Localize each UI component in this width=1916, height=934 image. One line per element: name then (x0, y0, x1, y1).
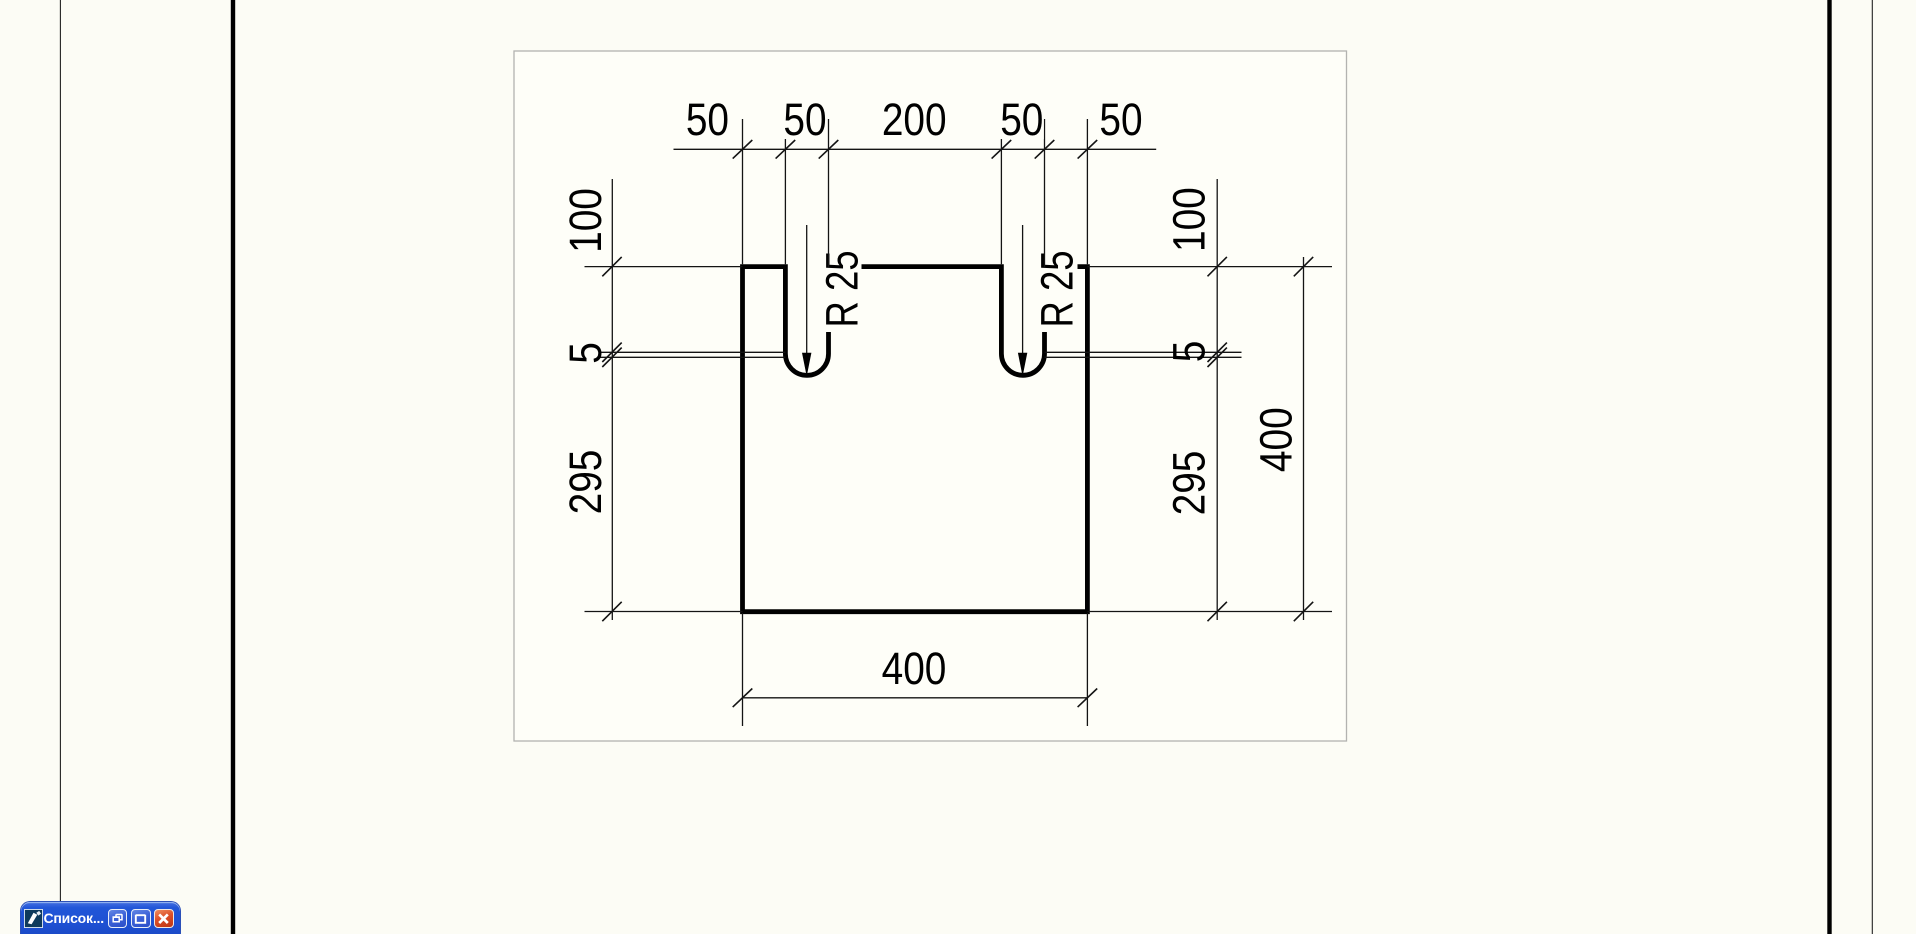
tick 3 (819, 140, 839, 159)
tick 4 (992, 140, 1012, 159)
wire: extension bottom edge right (1087, 611, 1332, 613)
tick right1 bottom (1208, 602, 1227, 621)
svg-text:400: 400 (882, 643, 947, 693)
wire: extension 5-pair upper left (600, 351, 785, 353)
wire: left thick vertical screen line (231, 0, 235, 934)
wire: bottom extension right (1086, 613, 1088, 726)
right dimension column 2 (400) (1303, 257, 1305, 620)
tick left 5b (602, 348, 621, 367)
dim text 50 (second) mask (783, 100, 827, 139)
tick bottom left (733, 689, 753, 708)
svg-text:50: 50 (783, 94, 826, 144)
tick 1 (733, 140, 753, 159)
wire: extension 5-pair lower right (1045, 356, 1242, 358)
wire: extension 5-pair lower left (600, 356, 785, 358)
wire: top dimension line (674, 148, 1157, 150)
wire: bottom extension left (742, 613, 744, 726)
tick right1 5b (1208, 348, 1227, 367)
tick left 5a (602, 343, 621, 362)
top dimension chain (674, 119, 1157, 267)
bottom dimension 400 (743, 613, 1088, 726)
svg-text:50: 50 (1000, 94, 1043, 144)
tick 6 (1078, 140, 1098, 159)
tick left top (602, 257, 621, 276)
part outline with two slots (743, 267, 1088, 612)
arrowhead R25 left (802, 353, 811, 377)
svg-text:295: 295 (560, 450, 610, 515)
svg-text:100: 100 (560, 188, 610, 253)
restore button (108, 909, 128, 929)
svg-text:50: 50 (1099, 94, 1142, 144)
leader line R25 left (806, 225, 808, 374)
wire: right vertical dimension line 1 (1216, 179, 1218, 620)
wire: bottom dimension line (743, 697, 1088, 699)
window icon (24, 909, 43, 928)
svg-text:5: 5 (560, 342, 610, 364)
svg-text:400: 400 (1251, 407, 1301, 472)
wire: extension bottom edge left (585, 611, 743, 613)
label R 25 (right slot) white mask box (1033, 243, 1078, 332)
wire: extension line 1 (742, 119, 744, 264)
tick right1 top (1208, 257, 1227, 276)
dim text 50 (fourth) mask (1000, 100, 1044, 139)
close button (154, 909, 174, 929)
wire: extension line 2 (784, 119, 786, 264)
left dimension column (585, 179, 786, 620)
wire: extension 5-pair upper right (1045, 351, 1242, 353)
svg-text:200: 200 (882, 94, 947, 144)
wire: right thick vertical screen line (1827, 0, 1831, 934)
wire: left vertical dimension line (611, 179, 613, 620)
taskbar window titlebar (minimized XP window) (21, 902, 180, 934)
label R 25 (left slot) white mask box (816, 243, 862, 332)
wire: extension line 4 (1000, 119, 1002, 264)
wire: extension line 6 (1086, 119, 1088, 264)
svg-text:R 25: R 25 (1032, 250, 1082, 327)
wire: extension top edge left (585, 266, 743, 268)
tick 2 (776, 140, 796, 159)
svg-text:5: 5 (1164, 341, 1214, 363)
window title text (44, 910, 106, 926)
arrowhead R25 right (1018, 353, 1027, 377)
tick right1 5a (1208, 343, 1227, 362)
wire: extension line 3 (828, 119, 830, 267)
svg-text:R 25: R 25 (817, 250, 867, 327)
tick right2 top (1294, 257, 1313, 276)
wire: extension top edge right (1087, 266, 1332, 268)
tick left bottom (602, 602, 621, 621)
maximize button (131, 909, 151, 929)
right dimension column 1 (1045, 179, 1333, 620)
panel: white drawing sheet (514, 51, 1347, 741)
wire: right vertical dimension line 2 (1303, 257, 1305, 620)
svg-text:295: 295 (1164, 451, 1214, 516)
tick right2 bottom (1294, 602, 1313, 621)
wire: right thin vertical screen line (1871, 0, 1873, 934)
svg-text:50: 50 (686, 94, 729, 144)
tick bottom right (1078, 689, 1098, 708)
leader line R25 right (1022, 225, 1024, 374)
wire: extension line 5 (1044, 119, 1046, 267)
tick 5 (1035, 140, 1055, 159)
svg-text:100: 100 (1164, 187, 1214, 252)
wire: left thin vertical screen line (59, 0, 61, 934)
